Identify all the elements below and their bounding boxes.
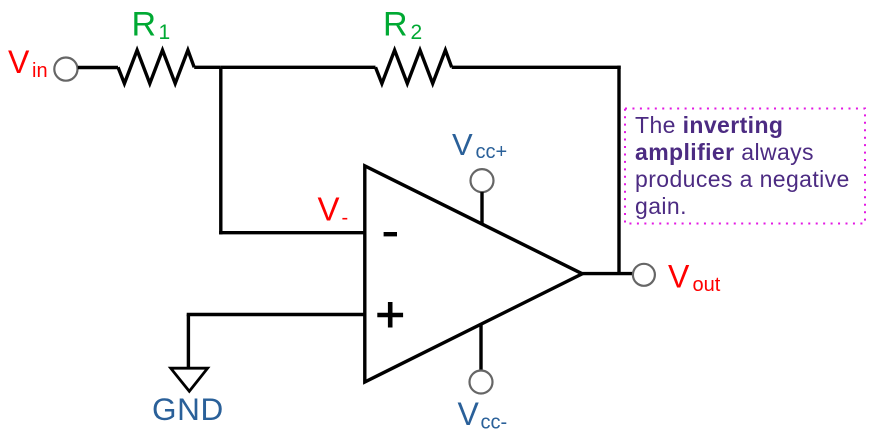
wire Vin to R1 (78, 66, 118, 69)
resistor R2 (376, 50, 452, 83)
annotation note box (624, 107, 866, 225)
wire Vcc+ to op-amp (480, 192, 483, 224)
label Vcc- (458, 396, 508, 434)
svg-text:-: - (342, 207, 349, 229)
label Vin (8, 44, 48, 82)
wire to inverting input (219, 231, 365, 234)
svg-text:V: V (8, 44, 30, 80)
label Vout (668, 258, 721, 296)
terminal Vout (633, 264, 655, 286)
svg-text:out: out (693, 274, 721, 296)
wire feedback tap vertical (219, 67, 222, 234)
ground (171, 368, 208, 391)
wire to ground (187, 315, 190, 370)
wire noninverting input (187, 313, 365, 316)
svg-text:GND: GND (152, 391, 224, 427)
wire feedback vertical right side (617, 66, 620, 274)
svg-text:R: R (132, 6, 157, 44)
svg-text:cc+: cc+ (476, 141, 508, 163)
svg-text:V: V (318, 191, 340, 228)
wire junction to R2 (221, 66, 376, 69)
wire Vcc- to op-amp (479, 325, 482, 371)
pin label plus (377, 302, 403, 328)
svg-text:V: V (668, 258, 690, 294)
svg-text:V: V (458, 396, 480, 432)
svg-text:in: in (32, 60, 48, 82)
label Vcc+ (452, 127, 507, 163)
label R1 (132, 6, 171, 44)
svg-text:V: V (452, 127, 473, 162)
svg-text:R: R (383, 6, 408, 44)
svg-text:2: 2 (411, 21, 423, 44)
svg-text:1: 1 (159, 21, 171, 44)
op-amp U1 (365, 166, 583, 382)
svg-text:cc-: cc- (481, 412, 508, 434)
label V- (318, 191, 349, 230)
wire R2 to corner (452, 66, 621, 69)
resistor R1 (118, 50, 194, 83)
wire R1 to junction (194, 66, 221, 69)
pin label minus (384, 232, 397, 236)
terminal Vin (54, 58, 77, 81)
wire output (582, 272, 632, 275)
terminal Vcc- (470, 371, 493, 394)
label R2 (383, 6, 422, 44)
terminal Vcc+ (471, 169, 494, 192)
